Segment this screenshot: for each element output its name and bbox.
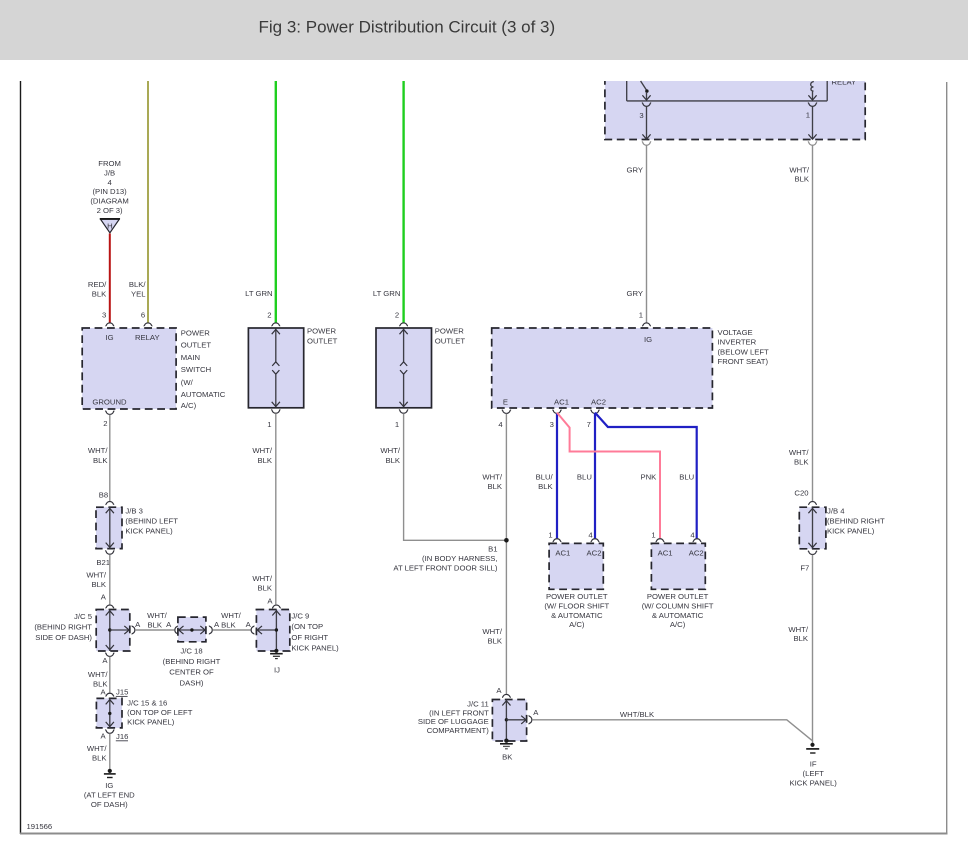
connector arc C20 bbox=[808, 502, 817, 505]
svg-text:AC1: AC1 bbox=[554, 398, 569, 407]
svg-text:1: 1 bbox=[548, 531, 552, 540]
svg-text:3: 3 bbox=[102, 311, 106, 320]
wire WHT/BLK power outlet 1 to J/C9 bbox=[275, 413, 277, 604]
svg-text:WHT/BLK: WHT/BLK bbox=[789, 165, 810, 183]
svg-text:WHT/: WHT/ bbox=[221, 611, 242, 620]
wire WHT/BLK J/B4 to IF ground bbox=[812, 555, 814, 743]
ground BK of J/C11 bbox=[500, 739, 513, 749]
svg-text:WHT/BLK: WHT/BLK bbox=[482, 627, 503, 646]
svg-text:POWEROUTLET: POWEROUTLET bbox=[435, 327, 466, 346]
svg-text:A: A bbox=[100, 731, 106, 740]
connector arc J/C9 left bbox=[251, 626, 254, 635]
ground IF bbox=[806, 743, 819, 753]
svg-text:AC2: AC2 bbox=[689, 548, 704, 557]
wire WHT/BLK power outlet 2 to B1 junction bbox=[404, 413, 507, 540]
connector arc B8 bbox=[105, 502, 114, 505]
wire BLU/BLK AC1 to outlet floor shift bbox=[556, 413, 558, 538]
svg-text:E: E bbox=[503, 398, 508, 407]
connector arc outlet floor AC2 bbox=[591, 539, 600, 542]
connector arc inverter pin 1 bbox=[642, 323, 651, 326]
wire BLU AC2 to outlet floor shift bbox=[594, 413, 596, 538]
svg-text:LT GRN: LT GRN bbox=[245, 289, 272, 298]
svg-text:BLK/YEL: BLK/YEL bbox=[129, 280, 147, 298]
svg-text:1: 1 bbox=[651, 531, 655, 540]
connector arc J/C5 top bbox=[105, 605, 114, 608]
junction connector J/C 11 bbox=[492, 700, 526, 742]
connector arc outlet column AC1 bbox=[656, 539, 665, 542]
connector H triangle bbox=[100, 219, 120, 233]
svg-text:WHT/BLK: WHT/BLK bbox=[380, 446, 401, 465]
connector arc J/C11 right A bbox=[529, 715, 532, 724]
svg-text:IF(LEFTKICK PANEL): IF(LEFTKICK PANEL) bbox=[790, 760, 838, 788]
junction connector J/C 15 & 16 bbox=[96, 698, 122, 728]
svg-text:BLU: BLU bbox=[679, 472, 694, 481]
svg-text:J/B 4(BEHIND RIGHTKICK PANEL): J/B 4(BEHIND RIGHTKICK PANEL) bbox=[827, 507, 885, 536]
connector arc power outlet 1 bottom bbox=[271, 409, 280, 413]
svg-text:WHT/BLK: WHT/BLK bbox=[789, 448, 810, 466]
svg-text:B21: B21 bbox=[96, 558, 110, 567]
wire relay pin 3 to box edge bbox=[642, 107, 650, 140]
svg-text:IJ: IJ bbox=[274, 665, 280, 674]
svg-text:AC2: AC2 bbox=[587, 548, 602, 557]
svg-text:POWEROUTLET: POWEROUTLET bbox=[307, 327, 338, 346]
svg-text:A: A bbox=[246, 620, 252, 629]
svg-text:C20: C20 bbox=[794, 489, 808, 498]
connector arc AC1 bbox=[553, 410, 562, 414]
connector arc ground pin 2 bbox=[105, 411, 114, 415]
svg-text:4: 4 bbox=[498, 420, 503, 429]
svg-text:A: A bbox=[533, 708, 539, 717]
svg-text:H: H bbox=[107, 222, 113, 231]
junction connector J/C 5 bbox=[96, 610, 130, 652]
svg-text:IG(AT LEFT ENDOF DASH): IG(AT LEFT ENDOF DASH) bbox=[84, 781, 135, 809]
svg-text:PNK: PNK bbox=[640, 472, 657, 481]
svg-text:2: 2 bbox=[395, 311, 399, 320]
svg-text:1: 1 bbox=[639, 311, 643, 320]
svg-text:3: 3 bbox=[550, 420, 554, 429]
svg-text:IG: IG bbox=[105, 333, 113, 342]
svg-text:A: A bbox=[496, 686, 502, 695]
connector arc pin 6 bbox=[144, 323, 153, 326]
svg-text:A: A bbox=[135, 620, 141, 629]
svg-text:2: 2 bbox=[103, 419, 107, 428]
connector arc J/C5 bottom A bbox=[105, 653, 114, 657]
junction block J/B 4 bbox=[799, 507, 826, 549]
svg-text:B8: B8 bbox=[99, 491, 108, 500]
connector arc outlet column AC2 bbox=[693, 539, 702, 542]
svg-text:BLU/BLK: BLU/BLK bbox=[536, 472, 554, 490]
svg-text:AC1: AC1 bbox=[658, 548, 673, 557]
svg-text:GROUND: GROUND bbox=[92, 398, 127, 407]
svg-text:J16: J16 bbox=[116, 732, 128, 741]
node J15 bbox=[116, 687, 129, 696]
svg-text:FROMJ/B4(PIN D13)(DIAGRAM2 OF: FROMJ/B4(PIN D13)(DIAGRAM2 OF 3) bbox=[90, 159, 128, 215]
power outlet main switch box bbox=[82, 328, 176, 409]
wire WHT/BLK J/C15 to ground bbox=[109, 734, 111, 769]
svg-text:6: 6 bbox=[141, 311, 145, 320]
svg-text:AC2: AC2 bbox=[591, 398, 606, 407]
ground IJ of J/C9 bbox=[270, 649, 283, 659]
junction node B1 bbox=[504, 538, 509, 543]
connector arc power outlet 2 bottom bbox=[399, 409, 408, 413]
frame bottom border bbox=[20, 833, 948, 835]
svg-text:B1(IN BODY HARNESS,AT LEFT FRO: B1(IN BODY HARNESS,AT LEFT FRONT DOOR SI… bbox=[393, 545, 498, 573]
junction connector J/C 18 bbox=[178, 617, 206, 642]
svg-text:A: A bbox=[214, 620, 220, 629]
connector arc J/C11 top bbox=[502, 694, 511, 697]
wire WHT/BLK J/C5 to J/C18 bbox=[135, 629, 174, 631]
svg-text:1: 1 bbox=[806, 110, 810, 119]
svg-text:WHT/BLK: WHT/BLK bbox=[252, 446, 273, 465]
svg-text:WHT/BLK: WHT/BLK bbox=[620, 710, 655, 719]
svg-text:J/C 18(BEHIND RIGHTCENTER OFDA: J/C 18(BEHIND RIGHTCENTER OFDASH) bbox=[163, 646, 221, 687]
wire WHT/BLK J/C11 to IF ground bbox=[532, 720, 812, 741]
connector arc power outlet 2 top bbox=[399, 323, 408, 326]
svg-text:1: 1 bbox=[395, 420, 399, 429]
svg-text:3: 3 bbox=[639, 111, 643, 120]
svg-text:7: 7 bbox=[587, 420, 591, 429]
svg-text:POWER OUTLET(W/ FLOOR SHIFT& A: POWER OUTLET(W/ FLOOR SHIFT& AUTOMATICA/… bbox=[544, 592, 609, 629]
svg-text:RELAY: RELAY bbox=[832, 78, 857, 87]
frame left border bbox=[20, 81, 22, 834]
connector arc J15 bbox=[105, 693, 114, 696]
connector arc J/C9 top bbox=[272, 605, 281, 608]
svg-text:J/C 9(ON TOPOF RIGHTKICK PANEL: J/C 9(ON TOPOF RIGHTKICK PANEL) bbox=[291, 612, 339, 653]
svg-text:GRY: GRY bbox=[626, 289, 643, 298]
wire GRY relay to inverter bbox=[646, 145, 648, 322]
connector arc B21 bbox=[105, 550, 114, 554]
svg-text:A: A bbox=[166, 620, 172, 629]
connector arc relay pin 3 inner bbox=[642, 103, 651, 107]
junction connector J/C 9 bbox=[256, 610, 289, 652]
svg-text:BLK: BLK bbox=[221, 620, 236, 629]
node J16 bbox=[116, 732, 129, 741]
svg-text:BLK: BLK bbox=[148, 620, 163, 629]
svg-text:POWEROUTLETMAINSWITCH(W/AUTOMA: POWEROUTLETMAINSWITCH(W/AUTOMATICA/C) bbox=[181, 328, 226, 410]
svg-text:RED/BLK: RED/BLK bbox=[88, 280, 107, 298]
svg-text:A: A bbox=[100, 687, 106, 696]
svg-text:A: A bbox=[267, 597, 273, 606]
svg-text:BLU: BLU bbox=[577, 472, 592, 481]
svg-text:WHT/BLK: WHT/BLK bbox=[482, 472, 503, 490]
connector arc AC2 bbox=[591, 410, 600, 414]
wire PNK AC1 to outlet column shift bbox=[557, 413, 660, 539]
power outlet 2 box bbox=[376, 328, 432, 408]
svg-text:2: 2 bbox=[267, 311, 271, 320]
svg-text:RELAY: RELAY bbox=[135, 333, 160, 342]
svg-text:4: 4 bbox=[588, 531, 593, 540]
svg-text:WHT/BLK: WHT/BLK bbox=[88, 446, 109, 465]
relay box (clipped at frame top) bbox=[605, 70, 865, 140]
connector arc outlet floor AC1 bbox=[553, 539, 562, 542]
connector arc J/C18 right bbox=[209, 626, 212, 635]
connector arc E bbox=[502, 410, 511, 414]
wire LT GRN 2 from top bbox=[402, 81, 404, 323]
svg-text:Fig 3: Power Distribution Circ: Fig 3: Power Distribution Circuit (3 of … bbox=[259, 17, 556, 36]
power outlet floor shift box bbox=[549, 543, 603, 589]
connector arc below relay right bbox=[808, 141, 817, 145]
svg-text:AC1: AC1 bbox=[555, 548, 570, 557]
svg-text:WHT/: WHT/ bbox=[147, 611, 168, 620]
power outlet column shift box bbox=[651, 543, 705, 589]
svg-text:191566: 191566 bbox=[27, 822, 53, 831]
connector arc J/C18 left bbox=[175, 626, 178, 635]
svg-text:LT GRN: LT GRN bbox=[373, 289, 400, 298]
wire WHT/BLK J/B3 to J/C5 bbox=[109, 554, 111, 605]
svg-text:WHT/BLK: WHT/BLK bbox=[252, 574, 273, 593]
connector arc power outlet 1 top bbox=[271, 323, 280, 326]
frame right border bbox=[946, 82, 948, 833]
wire BLK/YEL from top bbox=[147, 81, 149, 323]
ground IG bbox=[104, 769, 116, 778]
svg-text:POWER OUTLET(W/ COLUMN SHIFT&: POWER OUTLET(W/ COLUMN SHIFT& AUTOMATICA… bbox=[642, 592, 714, 629]
connector arc J/C5 right A bbox=[132, 626, 135, 635]
wire WHT/BLK J/C5 to J/C15 bbox=[109, 657, 111, 693]
svg-text:WHT/BLK: WHT/BLK bbox=[88, 670, 109, 689]
voltage inverter box bbox=[492, 328, 713, 408]
svg-text:J/B 3(BEHIND LEFTKICK PANEL): J/B 3(BEHIND LEFTKICK PANEL) bbox=[125, 506, 178, 535]
wire WHT/BLK J/C18 to J/C9 bbox=[213, 629, 251, 631]
svg-text:F7: F7 bbox=[800, 564, 809, 573]
connector arc relay pin 1 inner bbox=[808, 103, 817, 107]
svg-text:A: A bbox=[102, 656, 108, 665]
svg-text:WHT/BLK: WHT/BLK bbox=[788, 625, 809, 643]
connector arc F7 bbox=[808, 551, 817, 555]
junction block J/B 3 bbox=[96, 507, 122, 548]
svg-text:J15: J15 bbox=[116, 687, 128, 696]
wire relay pin 1 to box edge bbox=[808, 107, 816, 140]
svg-text:J/C 11(IN LEFT FRONTSIDE OF LU: J/C 11(IN LEFT FRONTSIDE OF LUGGAGECOMPA… bbox=[418, 700, 489, 735]
power outlet 1 box bbox=[248, 328, 303, 408]
wire BLU AC2 to outlet column shift bbox=[595, 413, 697, 539]
wire WHT/BLK inverter E to J/C11 bbox=[505, 414, 507, 695]
svg-text:GRY: GRY bbox=[626, 165, 643, 174]
relay switch contact bbox=[641, 81, 651, 100]
wire LT GRN 1 from top bbox=[275, 81, 277, 323]
svg-text:1: 1 bbox=[267, 420, 271, 429]
connector arc below relay left bbox=[642, 141, 651, 145]
svg-text:VOLTAGEINVERTER(BELOW LEFTFRON: VOLTAGEINVERTER(BELOW LEFTFRONT SEAT) bbox=[718, 328, 770, 366]
svg-text:WHT/BLK: WHT/BLK bbox=[86, 570, 107, 589]
connector arc pin 3 bbox=[105, 323, 114, 326]
wire WHT/BLK relay to J/B4 bbox=[812, 145, 814, 501]
svg-text:BK: BK bbox=[502, 752, 513, 761]
connector arc J16 bbox=[105, 730, 114, 734]
svg-text:A: A bbox=[101, 593, 107, 602]
svg-text:J/C 5(BEHIND RIGHTSIDE OF DASH: J/C 5(BEHIND RIGHTSIDE OF DASH) bbox=[34, 612, 92, 642]
wire RED/BLK from H to switch bbox=[109, 234, 111, 323]
relay coil bbox=[808, 82, 816, 101]
svg-text:WHT/BLK: WHT/BLK bbox=[87, 744, 108, 763]
svg-text:IG: IG bbox=[644, 335, 652, 344]
svg-text:4: 4 bbox=[690, 531, 695, 540]
header bar bbox=[0, 0, 968, 60]
wire WHT/BLK switch to J/B3 bbox=[109, 415, 111, 502]
svg-text:J/C 15 & 16(ON TOP OF LEFTKICK: J/C 15 & 16(ON TOP OF LEFTKICK PANEL) bbox=[127, 699, 193, 727]
